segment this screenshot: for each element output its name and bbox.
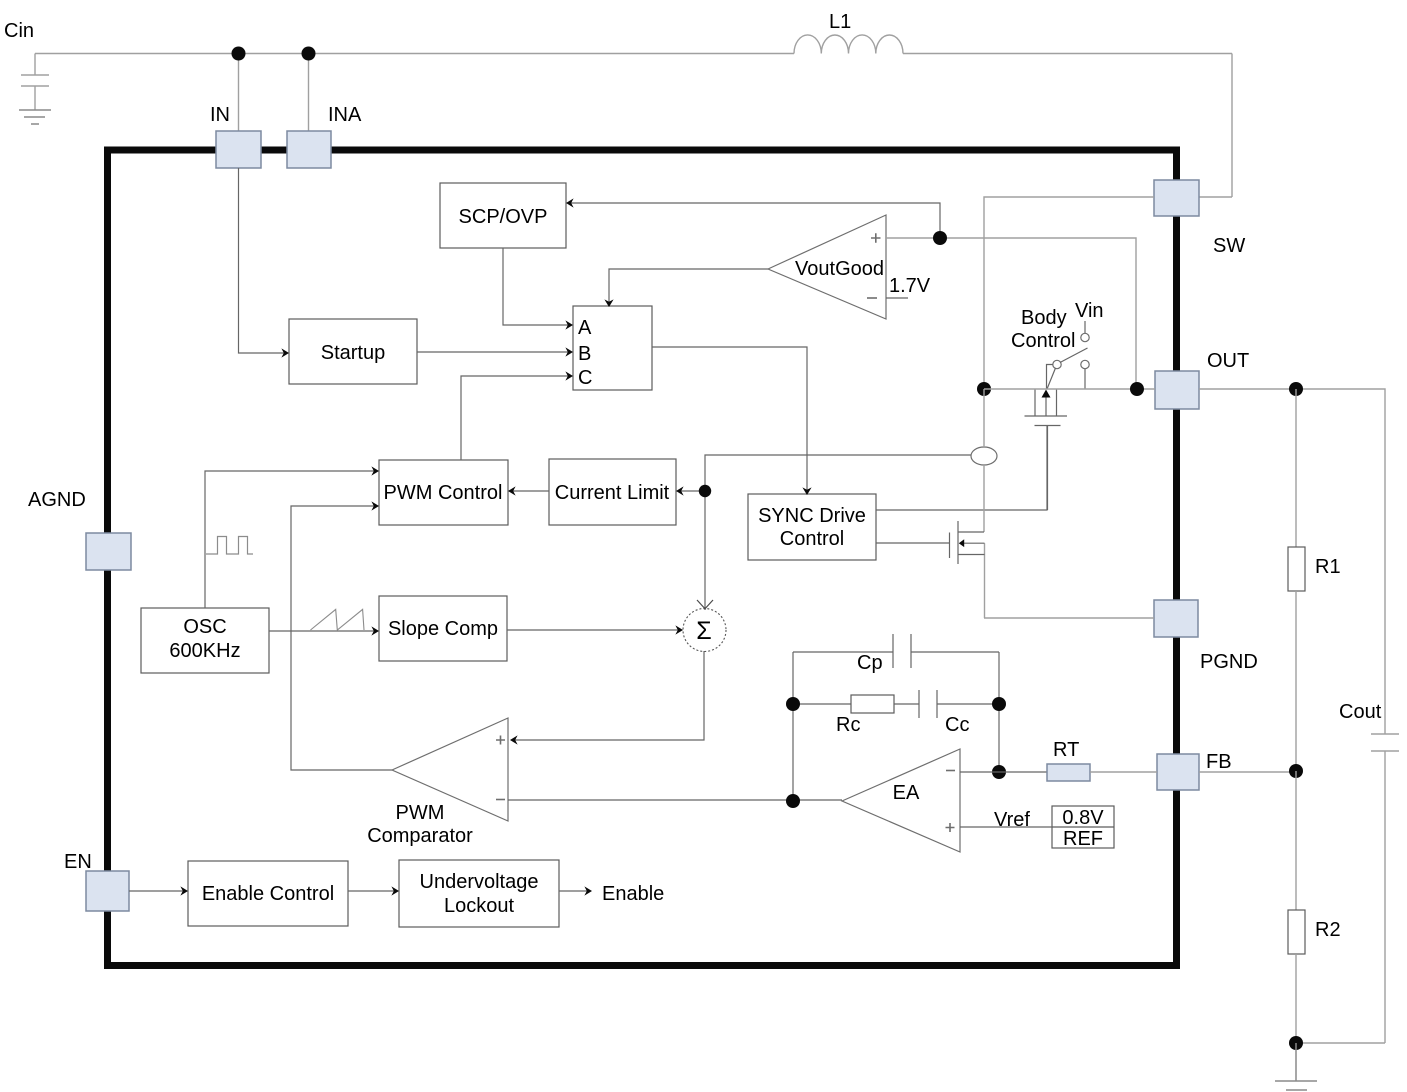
svg-text:PGND: PGND bbox=[1200, 651, 1258, 673]
wire PWM Comparator output to PWM Control bbox=[291, 501, 392, 770]
transistor Q1 high-side PMOS bbox=[1025, 389, 1068, 510]
wire Slope Comp to summing node bbox=[507, 625, 683, 634]
svg-text:B: B bbox=[578, 343, 591, 365]
wire IN drop bbox=[238, 54, 240, 132]
svg-text:Enable: Enable bbox=[602, 883, 664, 905]
wire Cout bottom to ground node bbox=[1296, 1042, 1385, 1044]
svg-text:Startup: Startup bbox=[321, 342, 385, 364]
wire Enable Control to Undervoltage Lockout bbox=[348, 886, 399, 895]
svg-text:Slope Comp: Slope Comp bbox=[388, 618, 498, 640]
svg-text:Undervoltage: Undervoltage bbox=[420, 871, 539, 893]
node junction VoutGood plus bbox=[933, 231, 947, 245]
block logic A B C bbox=[573, 306, 652, 390]
wire NMOS source to PGND bbox=[984, 617, 1154, 619]
node junction Cc right bbox=[992, 697, 1006, 711]
svg-text:Lockout: Lockout bbox=[444, 895, 514, 917]
capacitor Cout bbox=[1339, 701, 1399, 1043]
svg-text:VoutGood: VoutGood bbox=[795, 258, 884, 280]
svg-text:Body: Body bbox=[1021, 307, 1067, 329]
svg-text:OUT: OUT bbox=[1207, 350, 1249, 372]
svg-text:Current Limit: Current Limit bbox=[555, 482, 670, 504]
svg-text:OSC: OSC bbox=[183, 616, 226, 638]
svg-text:0.8V: 0.8V bbox=[1062, 807, 1104, 829]
svg-text:L1: L1 bbox=[829, 11, 851, 33]
block Startup bbox=[289, 319, 417, 384]
node junction at IN rail bbox=[232, 47, 246, 61]
wire ABC output to SYNC Drive Control bbox=[652, 347, 812, 495]
svg-text:1.7V: 1.7V bbox=[889, 275, 931, 297]
pin IN bbox=[210, 104, 261, 168]
wire OSC to PWM Control bbox=[205, 466, 379, 608]
pin AGND bbox=[28, 489, 131, 570]
svg-text:Control: Control bbox=[780, 528, 844, 550]
IC boundary bbox=[108, 150, 1177, 966]
block 0.8V REF bbox=[1052, 806, 1114, 850]
block PWM Control bbox=[379, 460, 508, 525]
svg-text:IN: IN bbox=[210, 104, 230, 126]
svg-text:Cin: Cin bbox=[4, 20, 34, 42]
block Current Limit bbox=[549, 459, 676, 525]
svg-text:R1: R1 bbox=[1315, 556, 1341, 578]
clock waveform symbol bbox=[206, 537, 253, 555]
pin FB bbox=[1157, 751, 1232, 790]
node junction at INA rail bbox=[302, 47, 316, 61]
wire switch node vertical bbox=[983, 389, 986, 618]
svg-text:Cp: Cp bbox=[857, 652, 883, 674]
wire OUT internal line bbox=[984, 388, 1155, 390]
gate drive bubble bbox=[971, 447, 997, 465]
capacitor Cc bbox=[919, 690, 999, 736]
svg-text:Σ: Σ bbox=[696, 617, 711, 645]
wire SW pin to switch node bbox=[984, 197, 1154, 389]
svg-text:600KHz: 600KHz bbox=[169, 640, 240, 662]
node junction Rc left bbox=[786, 697, 800, 711]
wire OSC to Slope Comp bbox=[269, 626, 379, 635]
svg-text:AGND: AGND bbox=[28, 489, 86, 511]
sawtooth waveform symbol bbox=[311, 609, 365, 630]
wire top input rail bbox=[35, 54, 1232, 198]
node junction current limit tap bbox=[699, 485, 711, 497]
svg-text:PWM Control: PWM Control bbox=[384, 482, 503, 504]
svg-text:SYNC Drive: SYNC Drive bbox=[758, 505, 866, 527]
svg-text:EA: EA bbox=[893, 782, 920, 804]
node junction VoutGood sense on OUT line bbox=[1130, 382, 1144, 396]
svg-text:A: A bbox=[578, 317, 592, 339]
resistor R2 bbox=[1288, 771, 1341, 1043]
node junction output node bbox=[1289, 382, 1303, 396]
capacitor Cin bbox=[4, 20, 49, 110]
wire branch to Current Limit bbox=[676, 486, 705, 495]
summing node Σ bbox=[683, 609, 726, 652]
wire Current Limit to PWM Control bbox=[508, 486, 549, 495]
block Undervoltage Lockout bbox=[399, 860, 559, 927]
wire SCP/OVP to ABC input A bbox=[503, 248, 573, 330]
wire SYNC output to low-side gate bbox=[876, 542, 949, 544]
wire EN pin to Enable Control bbox=[129, 886, 188, 895]
block OSC 600KHz bbox=[141, 608, 269, 673]
op-amp VoutGood comparator bbox=[768, 215, 931, 319]
svg-text:PWM: PWM bbox=[396, 802, 445, 824]
wire EA plus input Vref bbox=[960, 809, 1052, 831]
svg-text:Cc: Cc bbox=[945, 714, 969, 736]
op-amp PWM Comparator bbox=[367, 718, 508, 847]
inductor L1 bbox=[794, 11, 903, 54]
wire compensation left leg bbox=[792, 652, 794, 801]
svg-text:SCP/OVP: SCP/OVP bbox=[459, 206, 548, 228]
svg-text:INA: INA bbox=[328, 104, 362, 126]
svg-text:REF: REF bbox=[1063, 828, 1103, 850]
block Slope Comp bbox=[379, 596, 507, 661]
resistor RT bbox=[1047, 739, 1157, 781]
resistor R1 bbox=[1288, 389, 1341, 771]
node junction EA minus bbox=[992, 765, 1006, 779]
wire Startup to ABC input B bbox=[417, 347, 573, 356]
node junction switch node on OUT line bbox=[977, 382, 991, 396]
wire EA minus input bbox=[960, 771, 1047, 773]
wire compensation right leg bbox=[998, 652, 1000, 772]
svg-text:Cout: Cout bbox=[1339, 701, 1382, 723]
svg-text:Vref: Vref bbox=[994, 809, 1030, 831]
pin OUT bbox=[1155, 350, 1249, 409]
switch body control bbox=[1011, 300, 1104, 389]
ground (output) bbox=[1275, 1043, 1317, 1092]
node junction feedback tap bbox=[1289, 764, 1303, 778]
resistor Rc bbox=[793, 695, 919, 736]
wire VoutGood output to ABC top bbox=[604, 269, 768, 307]
wire VoutGood plus input net bbox=[886, 238, 1136, 389]
svg-text:EN: EN bbox=[64, 851, 92, 873]
node junction EA output bbox=[786, 794, 800, 808]
op-amp EA error amplifier bbox=[842, 749, 960, 852]
wire Undervoltage Lockout to Enable bbox=[559, 883, 664, 905]
block SYNC Drive Control bbox=[748, 494, 876, 560]
wire current sense to summing node bbox=[697, 455, 971, 610]
svg-text:R2: R2 bbox=[1315, 919, 1341, 941]
transistor Q2 low-side NMOS bbox=[950, 521, 985, 564]
block SCP/OVP bbox=[440, 183, 566, 248]
pin SW bbox=[1154, 180, 1245, 257]
svg-text:SW: SW bbox=[1213, 235, 1245, 257]
pin PGND bbox=[1154, 600, 1258, 673]
wire PWM Comparator minus to EA output bbox=[508, 799, 842, 801]
wire IN pin to Startup bbox=[239, 168, 290, 358]
wire summing node to PWM Comparator plus bbox=[510, 651, 704, 745]
svg-text:C: C bbox=[578, 367, 592, 389]
svg-text:FB: FB bbox=[1206, 751, 1232, 773]
wire INA drop bbox=[308, 54, 310, 132]
wire feedback to SCP/OVP bbox=[566, 198, 940, 238]
svg-text:Vin: Vin bbox=[1075, 300, 1104, 322]
ground (Cin) bbox=[19, 110, 51, 124]
svg-text:Enable Control: Enable Control bbox=[202, 883, 334, 905]
wire FB pin to divider tap bbox=[1199, 771, 1296, 773]
wire SYNC output to high-side body bbox=[876, 426, 1047, 510]
svg-text:Rc: Rc bbox=[836, 714, 860, 736]
svg-text:Control: Control bbox=[1011, 330, 1075, 352]
pin EN bbox=[64, 851, 129, 911]
block Enable Control bbox=[188, 861, 348, 926]
capacitor Cp bbox=[793, 634, 999, 674]
node junction ground node bbox=[1289, 1036, 1303, 1050]
svg-text:Comparator: Comparator bbox=[367, 825, 473, 847]
wire OUT pin to output node bbox=[1199, 389, 1385, 734]
wire PWM Control to ABC input C bbox=[461, 371, 573, 460]
pin INA bbox=[287, 104, 362, 168]
svg-text:RT: RT bbox=[1053, 739, 1079, 761]
